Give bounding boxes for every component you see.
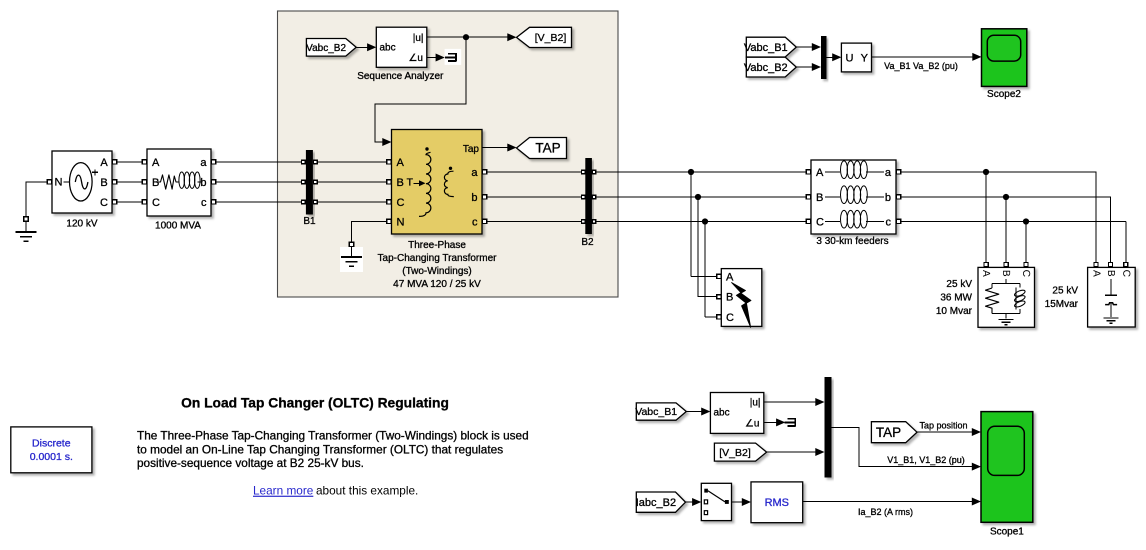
svg-text:a: a (885, 167, 892, 179)
wire junction a down to fault A (691, 172, 716, 276)
svg-text:N: N (55, 177, 63, 189)
svg-text:B: B (397, 177, 404, 189)
svg-text:Ia_B2 (A rms): Ia_B2 (A rms) (858, 507, 913, 517)
svg-text:The Three-Phase Tap-Changing T: The Three-Phase Tap-Changing Transformer… (137, 429, 529, 443)
bus bar B1 (303, 150, 316, 227)
wire source A to 1000MVA A (117, 161, 142, 163)
wire transformer a to bus B2 (487, 171, 581, 173)
svg-text:15Mvar: 15Mvar (1045, 299, 1079, 310)
wire label Tap position (919, 420, 967, 430)
svg-text:Scope2: Scope2 (987, 89, 1021, 100)
wire 1000MVA c to bus B1 (216, 201, 301, 203)
wire B1 b to transformer B (318, 181, 387, 183)
wire Vabc_B1 to Sequence Analyzer1 (686, 408, 710, 416)
svg-text:Three-Phase: Three-Phase (408, 240, 466, 251)
wire junction down to load1 C (1025, 222, 1027, 263)
svg-text:B: B (726, 292, 733, 304)
wire U Y to Scope2 (872, 53, 982, 61)
mux M2 (825, 377, 832, 478)
svg-text:c: c (201, 197, 207, 209)
svg-text:A: A (152, 157, 160, 169)
mux M1 (821, 36, 827, 79)
wire junction b down to fault B (698, 197, 716, 297)
wire B2 b to feeders B (597, 196, 807, 198)
svg-text:B2: B2 (581, 237, 594, 248)
svg-text:N: N (397, 217, 405, 229)
wire source B to 1000MVA B (117, 181, 142, 183)
svg-text:A: A (726, 271, 734, 283)
scope Scope2 (982, 29, 1027, 100)
svg-text:C: C (152, 197, 160, 209)
wire tap feedback from junction to transformer Tap input (375, 37, 466, 146)
wire TAP to Scope1 input1 (917, 428, 981, 436)
from tag Vabc_B1 (top right) (744, 37, 796, 57)
svg-text:[V_B2]: [V_B2] (535, 32, 567, 44)
svg-text:Tap position: Tap position (919, 420, 967, 430)
svg-text:Learn more: Learn more (253, 484, 314, 498)
node junction c to fault (702, 218, 708, 224)
wire Vabc_B2 to mux (796, 63, 821, 71)
svg-text:TAP: TAP (535, 141, 560, 156)
svg-text:B1: B1 (303, 216, 316, 227)
svg-text:C: C (397, 197, 405, 209)
wire label V1_B1, V1_B2 (pu) (887, 455, 965, 465)
svg-text:abc: abc (380, 43, 396, 54)
block Sequence Analyzer U1 (357, 27, 444, 82)
svg-text:RMS: RMS (765, 497, 789, 509)
ground G2 under transformer (340, 247, 363, 272)
svg-text:C: C (816, 217, 824, 229)
svg-text:Vabc_B2: Vabc_B2 (306, 43, 346, 54)
svg-text:about this example.: about this example. (316, 484, 418, 498)
wire feeders b to load2 B (901, 197, 1111, 262)
block Three-Phase Fault (721, 269, 762, 327)
wire B1 a to transformer A (318, 161, 387, 163)
wire angle-u to terminator T2 (764, 418, 786, 426)
goto tag TAP (517, 138, 567, 159)
wire RMS to Scope1 input3 (803, 498, 981, 506)
ports of bus B1 (302, 160, 318, 204)
ports A B C of load1 (984, 263, 1028, 267)
port of ground G2 (349, 242, 354, 247)
lightning bolt icon in fault block (732, 283, 752, 328)
RL load icon inside load1 (986, 279, 1026, 325)
svg-text:Scope1: Scope1 (990, 526, 1024, 537)
svg-text:10 Mvar: 10 Mvar (936, 306, 973, 317)
svg-text:|u|: |u| (413, 33, 424, 44)
block Discrete powergui (11, 427, 92, 473)
svg-text:Vabc_B2: Vabc_B2 (744, 62, 788, 74)
svg-text:25 kV: 25 kV (1052, 286, 1078, 297)
description annotation (137, 429, 529, 470)
node junction b to load1 (1003, 194, 1009, 200)
svg-text:47 MVA 120 / 25 kV: 47 MVA 120 / 25 kV (393, 279, 481, 290)
ports A B C of feeders (806, 170, 810, 224)
svg-text:T: T (407, 177, 414, 189)
port N of source (47, 180, 51, 184)
wire feeders a to load2 A (901, 172, 1096, 262)
wire label Va_B1 Va_B2 (pu) (884, 61, 958, 71)
from tag Vabc_B2 (top right) (744, 57, 796, 77)
ports a b c of 1000 MVA (212, 160, 216, 204)
learn more link annotation (253, 484, 418, 498)
wire Vabc_B1 to mux (796, 43, 821, 51)
node junction a to load1 (983, 169, 989, 175)
svg-text:25 kV: 25 kV (946, 279, 972, 290)
wire transformer N to ground (352, 222, 387, 242)
block Three-Phase Tap-Changing Transformer (yellow) (392, 130, 483, 235)
ports A B C N of transformer (387, 160, 391, 224)
label of load2 (1045, 286, 1079, 311)
wire Vabc_B2 to Sequence Analyzer (356, 43, 376, 51)
wire transformer c to bus B2 (487, 221, 581, 223)
wire feeders c to load2 C (901, 222, 1126, 263)
svg-text:|u|: |u| (750, 398, 761, 409)
node junction a to fault (688, 169, 694, 175)
block Sequence Analyzer1 U2 (710, 393, 763, 434)
svg-text:A: A (397, 157, 405, 169)
svg-text:On Load Tap Changer (OLTC) Reg: On Load Tap Changer (OLTC) Regulating (181, 395, 449, 410)
wire mux M2 to Scope1 input2 (832, 427, 982, 470)
resistor-inductor icon inside 1000 MVA (155, 172, 202, 231)
svg-text:[V_B2]: [V_B2] (719, 447, 751, 459)
wire Iabc_B2 to selector (686, 498, 702, 506)
block 3 30-km feeders (811, 160, 896, 247)
wire junction down to load1 B (1005, 197, 1007, 262)
ports of bus B2 (581, 170, 595, 223)
wire [V_B2] to mux M2 (767, 448, 825, 456)
terminator T1 (445, 49, 462, 65)
ports a b c of transformer (483, 170, 487, 224)
svg-text:abc: abc (714, 407, 730, 418)
svg-text:Vabc_B1: Vabc_B1 (744, 42, 788, 54)
svg-text:36 MW: 36 MW (940, 293, 972, 304)
wire junction down to load1 A (985, 172, 987, 262)
ports A B C of 1000 MVA (142, 160, 146, 204)
svg-text:A: A (100, 157, 108, 169)
svg-text:b: b (471, 192, 477, 204)
capacitor icon inside load2 (1104, 279, 1119, 323)
wire selector to RMS (732, 498, 752, 506)
wire B2 c to feeders C (597, 221, 807, 223)
wire transformer Tap output to TAP goto (482, 144, 517, 152)
wire |u| output to junction and V_B2 goto (427, 33, 517, 41)
from tag Vabc_B1 (bottom) (635, 403, 686, 420)
block 1000 MVA source impedance (147, 149, 211, 216)
bus bar B2 (581, 158, 594, 248)
from tag Vabc_B2 (top) (306, 39, 356, 57)
svg-text:TAP: TAP (876, 425, 901, 440)
svg-text:a: a (471, 167, 478, 179)
wire mux to selector U Y (827, 53, 842, 61)
block load 25kV 36MW 10Mvar (978, 267, 1035, 327)
title annotation (181, 395, 449, 410)
ports A B C of fault block (717, 274, 721, 319)
svg-text:Vabc_B1: Vabc_B1 (635, 406, 677, 418)
svg-text:b: b (885, 192, 891, 204)
wire label Ia_B2 (A rms) (858, 507, 913, 517)
secondary winding coil of transformer (444, 167, 453, 197)
from tag Iabc_B2 (636, 492, 686, 512)
svg-text:c: c (472, 217, 478, 229)
wire 1000MVA a to bus B1 (216, 161, 301, 163)
ground G1 (16, 221, 37, 241)
svg-text:to model an On-Line Tap Changi: to model an On-Line Tap Changing Transfo… (137, 442, 503, 456)
block 120 kV three-phase source (52, 151, 112, 229)
wire angle-u to terminator (427, 54, 445, 62)
goto tag [V_B2] (517, 27, 572, 47)
svg-text:B: B (816, 192, 823, 204)
svg-text:Iabc_B2: Iabc_B2 (636, 497, 676, 509)
block RMS (751, 482, 803, 523)
svg-text:B: B (152, 177, 159, 189)
wire B2 a to feeders A (597, 171, 807, 173)
wire transformer b to bus B2 (487, 196, 581, 198)
terminator T2 (785, 414, 798, 430)
scope Scope1 (981, 412, 1033, 538)
svg-text:B: B (100, 177, 107, 189)
primary winding coil of transformer (419, 147, 431, 216)
svg-text:(Two-Windings): (Two-Windings) (402, 266, 471, 277)
wire |u| to mux M2 (764, 398, 825, 406)
transformer label (378, 240, 498, 290)
svg-text:∠u: ∠u (745, 419, 760, 430)
wire junction c down to fault C (705, 222, 716, 317)
tap arrow T inside transformer (407, 177, 426, 189)
svg-text:Sequence Analyzer: Sequence Analyzer (357, 71, 444, 82)
svg-text:120 kV: 120 kV (66, 218, 97, 229)
block load 25kV 15Mvar (1088, 267, 1136, 327)
svg-text:C: C (726, 312, 734, 324)
svg-text:b: b (200, 177, 206, 189)
ports a b c of feeders (897, 170, 901, 224)
feeder coil phase A (825, 161, 884, 179)
wire 1000MVA b to bus B1 (216, 181, 301, 183)
feeder coil phase B (825, 186, 884, 204)
label of load1 (936, 279, 973, 317)
svg-text:Y: Y (861, 52, 869, 64)
from tag TAP (bottom) (871, 422, 917, 443)
svg-text:a: a (200, 157, 207, 169)
svg-text:positive-sequence voltage at B: positive-sequence voltage at B2 25-kV bu… (137, 456, 364, 470)
ports A B C of load2 (1094, 263, 1128, 267)
svg-text:c: c (886, 217, 892, 229)
svg-text:A: A (816, 167, 824, 179)
svg-text:∠u: ∠u (408, 53, 423, 64)
svg-text:Va_B1 Va_B2 (pu): Va_B1 Va_B2 (pu) (884, 61, 958, 71)
block selector U Y (841, 43, 871, 72)
block selector (signal selector) (701, 483, 731, 520)
from tag [V_B2] (bottom) (714, 443, 766, 461)
node junction b to fault (695, 194, 701, 200)
svg-text:Tap-Changing Transformer: Tap-Changing Transformer (378, 253, 498, 264)
svg-text:3 30-km feeders: 3 30-km feeders (816, 236, 888, 247)
svg-text:V1_B1, V1_B2 (pu): V1_B1, V1_B2 (pu) (887, 455, 965, 465)
feeder coil phase C (825, 210, 884, 228)
svg-text:0.0001 s.: 0.0001 s. (30, 451, 73, 463)
node junction c to load1 (1023, 218, 1029, 224)
svg-text:C: C (100, 197, 108, 209)
subsystem area (OLTC regulating zone) (278, 11, 619, 297)
wire B1 c to transformer C (318, 201, 387, 203)
node junction on |u| wire (463, 34, 469, 40)
port of ground G1 (24, 217, 29, 222)
svg-text:U: U (846, 52, 854, 64)
wire source C to 1000MVA C (117, 201, 142, 203)
svg-text:Discrete: Discrete (32, 437, 71, 449)
svg-text:Tap: Tap (463, 144, 480, 155)
svg-text:1000 MVA: 1000 MVA (155, 220, 201, 231)
wire source N to ground (26, 182, 47, 216)
ports A B C of source (113, 160, 117, 204)
